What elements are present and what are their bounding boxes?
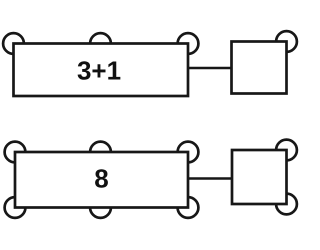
svg-text:3+1: 3+1 [77,56,121,86]
connector tab K1 outline [232,42,287,94]
relay K2 body outline [15,152,188,208]
terminal pin 3 (top-right corner, relay K1 body) [178,33,199,54]
terminal pin 3 (top-right corner, relay K2 body) [178,142,199,163]
wire from relay K1 body to connector tab [188,67,232,70]
terminal pin 1 (top-left corner, relay K2 body) [5,142,26,163]
terminal pin 4 (top-right corner, connector tab K1) [276,31,297,52]
terminal pin 1 (top-left corner, relay K1 body) [3,33,24,54]
wire from relay K2 body to connector tab [188,177,232,180]
terminal pin 5 (bottom-middle, relay K2 body) [90,197,111,218]
terminal pin 2 (top-middle, relay K1 body) [90,33,111,54]
svg-text:8: 8 [94,164,108,194]
terminal pin 7 (top-right corner, connector tab K2) [276,140,297,161]
terminal pin 6 (bottom-right corner, relay K2 body) [178,197,199,218]
terminal pin 4 (bottom-left corner, relay K2 body) [5,197,26,218]
terminal pin 8 (bottom-right corner, connector tab K2) [276,194,297,215]
connector tab K2 outline [232,150,287,204]
terminal pin 2 (top-middle, relay K2 body) [90,142,111,163]
relay K1 body outline [14,44,189,97]
